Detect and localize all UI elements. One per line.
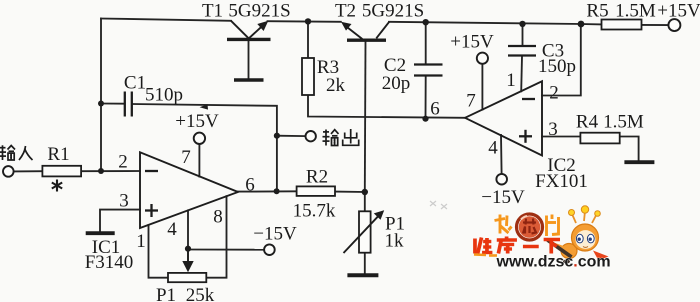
- svg-text:2: 2: [118, 152, 128, 173]
- svg-text:150p: 150p: [538, 56, 576, 77]
- wire C1 left lead: [101, 103, 124, 105]
- svg-text:1: 1: [506, 70, 516, 91]
- wire IC1 -15V lead: [188, 249, 264, 251]
- wire T2 base line: [364, 42, 367, 192]
- resistor R1: [42, 166, 81, 177]
- potentiometer P1 25k: [168, 249, 206, 282]
- wire node to P1 1k: [364, 192, 366, 211]
- capacitor C2: [414, 65, 443, 76]
- terminal input: [3, 166, 14, 177]
- ground T1 base: [234, 78, 264, 82]
- wire R3 top lead: [307, 21, 309, 58]
- svg-text:5G921S: 5G921S: [362, 1, 424, 22]
- wire R3 bottom to IC2 input: [308, 95, 465, 118]
- wire IC2 pin7: [481, 64, 483, 110]
- labels (serif): [202, 1, 700, 22]
- wire IC1 pin8 to P1: [207, 196, 227, 278]
- capacitor C3: [508, 46, 536, 56]
- svg-text:T1: T1: [202, 1, 223, 22]
- svg-text:2k: 2k: [326, 75, 346, 96]
- stray scan marks: [430, 201, 447, 209]
- terminal +15V IC1: [194, 133, 205, 144]
- wire output stub: [277, 135, 306, 137]
- wire IC1 pin1 to P1: [149, 225, 169, 278]
- watermark: [474, 206, 611, 271]
- terminal +15V R5: [668, 19, 680, 31]
- wire R4 to ground: [620, 137, 639, 161]
- op-amp U1 IC1: [140, 152, 238, 228]
- wire IC1 pin7: [198, 144, 200, 176]
- svg-text:25k: 25k: [186, 285, 215, 302]
- svg-text:T2: T2: [335, 1, 356, 22]
- wire IC1 pin3: [100, 210, 140, 231]
- wire top rail middle segment: [268, 20, 341, 23]
- svg-text:3: 3: [548, 119, 558, 140]
- potentiometer P1 1k: [344, 210, 385, 253]
- svg-text:+15V: +15V: [450, 32, 494, 53]
- wire C3 bottom lead / IC2 pin1: [520, 57, 523, 92]
- svg-text:20p: 20p: [382, 73, 411, 94]
- wire R1 to IC1 pin2: [81, 170, 140, 172]
- terminal output: [306, 131, 316, 141]
- svg-text:1.5M: 1.5M: [615, 1, 656, 22]
- wire C3 top lead: [522, 24, 524, 45]
- wire R5 leads: [582, 23, 602, 25]
- svg-text:6: 6: [245, 175, 255, 196]
- svg-text:R5: R5: [586, 1, 608, 22]
- svg-text:1k: 1k: [385, 231, 405, 252]
- wire IC1 pin4: [187, 210, 189, 261]
- transistor T2: [341, 22, 389, 40]
- wire input to R1: [14, 170, 43, 172]
- mascot: [552, 206, 609, 264]
- pen handle: [548, 240, 572, 257]
- wire left vertical bus: [100, 19, 102, 172]
- svg-text:7: 7: [181, 147, 191, 168]
- capacitor C1: [125, 92, 132, 117]
- svg-text:4: 4: [488, 138, 498, 159]
- svg-text:7: 7: [466, 91, 476, 112]
- node label 输出 (output): [323, 129, 359, 146]
- svg-text:+15V: +15V: [657, 1, 700, 22]
- wire IC2 pin2 riser: [542, 24, 581, 96]
- svg-text:15.7k: 15.7k: [293, 201, 336, 222]
- wire IC2 pin4: [500, 135, 503, 174]
- orange underline dashes: [474, 253, 486, 256]
- svg-text:2: 2: [549, 83, 559, 104]
- wire C2 top lead: [425, 22, 427, 63]
- transistor T1 base lead: [248, 41, 250, 79]
- svg-text:+15V: +15V: [175, 111, 219, 132]
- terminal -15V IC1: [264, 244, 275, 255]
- ground IC1 pin3: [86, 231, 115, 235]
- arrow tick on output wire: [200, 104, 208, 109]
- svg-text:1.5M: 1.5M: [603, 112, 644, 133]
- resistor R4: [580, 133, 619, 144]
- svg-text:5G921S: 5G921S: [228, 1, 290, 22]
- svg-text:−15V: −15V: [253, 224, 297, 245]
- svg-text:R1: R1: [47, 144, 69, 165]
- resistor R2: [297, 186, 335, 196]
- logo text 找 片: [495, 215, 559, 237]
- wire C2 bottom lead: [425, 77, 427, 119]
- wire R2 to node: [335, 191, 365, 193]
- node label 输入 (input): [0, 145, 33, 160]
- svg-text:−15V: −15V: [481, 187, 525, 208]
- transistor T1: [227, 21, 271, 40]
- svg-text:R4: R4: [576, 112, 599, 133]
- wire IC1 output to R2: [238, 190, 297, 192]
- wire top rail right segment: [389, 22, 582, 24]
- svg-text:8: 8: [213, 207, 223, 228]
- wire top rail left segment: [101, 19, 231, 21]
- terminal +15V IC2: [477, 53, 488, 64]
- svg-text:C1: C1: [124, 73, 146, 94]
- wire C1 right to corner: [132, 104, 277, 191]
- svg-text:FX101: FX101: [535, 171, 588, 192]
- svg-text:3: 3: [119, 191, 129, 212]
- svg-text:4: 4: [167, 219, 177, 240]
- wire IC2 pin3 to R4: [542, 136, 580, 138]
- resistor R5: [602, 20, 642, 30]
- wire P1 1k to ground: [364, 253, 366, 274]
- svg-text:1: 1: [136, 231, 146, 252]
- ground P1 1k: [347, 273, 378, 277]
- svg-text:www.dzsc.com: www.dzsc.com: [496, 254, 611, 271]
- svg-text:P1: P1: [156, 285, 176, 302]
- svg-text:6: 6: [430, 99, 440, 120]
- svg-text:R2: R2: [306, 167, 328, 188]
- asterisk under R1: [52, 180, 62, 192]
- magnifier glass with 芯: [519, 216, 541, 238]
- terminal -15V IC2: [496, 174, 507, 185]
- logo text 维库一下 (red): [475, 237, 560, 254]
- svg-text:F3140: F3140: [85, 252, 134, 273]
- ground R4: [624, 160, 654, 164]
- op-amp U2 IC2: [465, 81, 542, 155]
- resistor R3: [302, 58, 314, 95]
- svg-text:510p: 510p: [145, 85, 183, 106]
